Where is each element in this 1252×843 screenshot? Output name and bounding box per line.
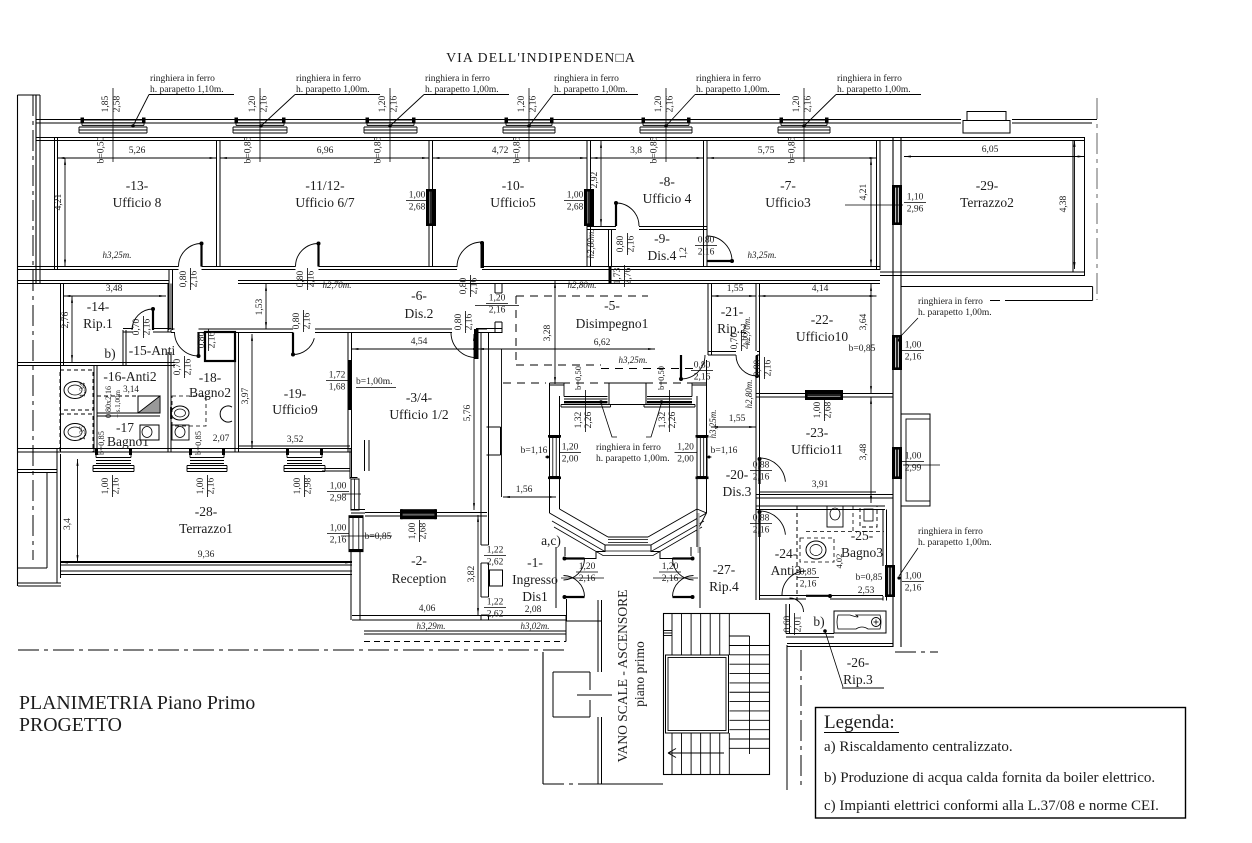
svg-text:3,48: 3,48 bbox=[106, 284, 123, 294]
svg-text:0,80: 0,80 bbox=[179, 270, 189, 287]
svg-text:b=0,85: b=0,85 bbox=[856, 573, 883, 583]
svg-text:1,20: 1,20 bbox=[792, 95, 802, 112]
svg-text:2,16: 2,16 bbox=[804, 95, 814, 112]
svg-text:0,88: 0,88 bbox=[753, 514, 770, 524]
svg-text:Ufficio11: Ufficio11 bbox=[791, 442, 843, 457]
svg-text:Ufficio9: Ufficio9 bbox=[272, 402, 318, 417]
svg-text:1,55: 1,55 bbox=[729, 414, 746, 424]
svg-text:1,32: 1,32 bbox=[658, 411, 668, 428]
svg-text:1,00: 1,00 bbox=[905, 452, 922, 462]
svg-text:2,26: 2,26 bbox=[668, 411, 678, 428]
svg-text:2,00: 2,00 bbox=[562, 455, 579, 465]
svg-text:0,80: 0,80 bbox=[753, 359, 763, 376]
svg-text:-26-: -26- bbox=[847, 655, 870, 670]
svg-text:2,76: 2,76 bbox=[623, 267, 633, 284]
svg-text:2,76: 2,76 bbox=[61, 311, 71, 328]
svg-text:6,05: 6,05 bbox=[982, 145, 999, 155]
svg-text:-19-: -19- bbox=[284, 386, 307, 401]
svg-text:0,80: 0,80 bbox=[292, 312, 302, 329]
svg-text:3,52: 3,52 bbox=[287, 435, 304, 445]
svg-text:Disimpegno1: Disimpegno1 bbox=[576, 316, 649, 331]
svg-text:4,72: 4,72 bbox=[492, 146, 509, 156]
svg-text:2,68: 2,68 bbox=[823, 401, 833, 418]
svg-text:-1-: -1- bbox=[527, 555, 543, 570]
svg-text:h3,25m.: h3,25m. bbox=[619, 355, 648, 365]
svg-text:VIA DELL'INDIPENDEN□A: VIA DELL'INDIPENDEN□A bbox=[446, 50, 636, 65]
svg-text:2,16: 2,16 bbox=[489, 306, 506, 316]
svg-text:h2,70m.: h2,70m. bbox=[323, 280, 352, 290]
svg-text:h. parapetto 1,00m.: h. parapetto 1,00m. bbox=[918, 538, 992, 548]
svg-text:h. parapetto 1,00m.: h. parapetto 1,00m. bbox=[837, 85, 911, 95]
svg-text:-25-: -25- bbox=[851, 528, 874, 543]
svg-text:a,c): a,c) bbox=[541, 533, 561, 548]
svg-text:h. parapetto 1,00m.: h. parapetto 1,00m. bbox=[296, 85, 370, 95]
svg-text:-11/12-: -11/12- bbox=[305, 178, 345, 193]
svg-text:2,16: 2,16 bbox=[905, 353, 922, 363]
svg-text:0,60: 0,60 bbox=[783, 615, 793, 632]
svg-text:2,92: 2,92 bbox=[590, 171, 600, 188]
svg-text:h3,29m.: h3,29m. bbox=[417, 621, 446, 631]
svg-text:1,00: 1,00 bbox=[813, 401, 823, 418]
svg-text:-18-: -18- bbox=[199, 370, 222, 385]
svg-text:2,16: 2,16 bbox=[206, 477, 216, 494]
svg-text:5,26: 5,26 bbox=[129, 146, 146, 156]
svg-text:2,16: 2,16 bbox=[698, 248, 715, 258]
svg-text:2,16: 2,16 bbox=[579, 574, 596, 584]
svg-text:1,00: 1,00 bbox=[905, 341, 922, 351]
svg-text:h2,70m.: h2,70m. bbox=[742, 317, 752, 346]
svg-text:2,16: 2,16 bbox=[529, 95, 539, 112]
svg-text:2,16: 2,16 bbox=[111, 477, 121, 494]
svg-text:1,73: 1,73 bbox=[613, 267, 623, 284]
svg-text:0,80: 0,80 bbox=[197, 331, 207, 348]
svg-text:2,62: 2,62 bbox=[487, 610, 504, 620]
svg-text:b=0,85: b=0,85 bbox=[244, 136, 254, 163]
svg-text:1,2: 1,2 bbox=[679, 247, 689, 259]
svg-text:-29-: -29- bbox=[976, 178, 999, 193]
svg-text:1,20: 1,20 bbox=[248, 95, 258, 112]
svg-text:ringhiera in ferro: ringhiera in ferro bbox=[554, 73, 619, 84]
svg-text:b) Produzione di acqua calda: b) Produzione di acqua calda fornita da … bbox=[824, 770, 1155, 786]
svg-text:4,38: 4,38 bbox=[1059, 195, 1069, 212]
svg-text:9,36: 9,36 bbox=[198, 550, 215, 560]
svg-text:1,00: 1,00 bbox=[330, 524, 347, 534]
svg-text:2,62: 2,62 bbox=[487, 558, 504, 568]
svg-text:b=0,85: b=0,85 bbox=[849, 344, 876, 354]
svg-text:ringhiera in ferro: ringhiera in ferro bbox=[837, 73, 902, 84]
svg-text:2,16: 2,16 bbox=[260, 95, 270, 112]
svg-text:1,00: 1,00 bbox=[101, 477, 111, 494]
svg-text:0,70: 0,70 bbox=[173, 358, 183, 375]
svg-text:2,53: 2,53 bbox=[858, 586, 875, 596]
svg-text:3,4: 3,4 bbox=[63, 518, 73, 530]
svg-text:0,80: 0,80 bbox=[694, 361, 711, 371]
svg-text:2,16: 2,16 bbox=[390, 95, 400, 112]
svg-text:0,80: 0,80 bbox=[459, 277, 469, 294]
svg-text:h3,25m.: h3,25m. bbox=[708, 410, 718, 439]
svg-text:ringhiera in ferro: ringhiera in ferro bbox=[150, 73, 215, 84]
svg-text:2,16: 2,16 bbox=[464, 313, 474, 330]
svg-text:2,16: 2,16 bbox=[142, 318, 152, 335]
svg-text:h3,25m.: h3,25m. bbox=[748, 250, 777, 260]
svg-text:3,48: 3,48 bbox=[859, 443, 869, 460]
svg-text:Rip.3: Rip.3 bbox=[843, 672, 873, 687]
svg-text:1,72: 1,72 bbox=[329, 371, 346, 381]
svg-text:2,68: 2,68 bbox=[418, 522, 428, 539]
svg-text:VANO SCALE - ASCENSORE: VANO SCALE - ASCENSORE bbox=[615, 590, 630, 763]
svg-text:b=0,85: b=0,85 bbox=[650, 136, 660, 163]
svg-text:2,16: 2,16 bbox=[753, 526, 770, 536]
svg-text:3,28: 3,28 bbox=[543, 324, 553, 341]
svg-text:h. parapetto 1,00m.: h. parapetto 1,00m. bbox=[554, 85, 628, 95]
svg-text:b=0,50: b=0,50 bbox=[573, 366, 583, 390]
svg-text:1,00: 1,00 bbox=[408, 522, 418, 539]
svg-text:0,80: 0,80 bbox=[296, 270, 306, 287]
svg-text:b=1,16: b=1,16 bbox=[711, 446, 738, 456]
svg-text:1,00: 1,00 bbox=[409, 191, 426, 201]
svg-text:b): b) bbox=[104, 346, 115, 361]
svg-text:1,20: 1,20 bbox=[579, 562, 596, 572]
svg-text:2,16: 2,16 bbox=[753, 473, 770, 483]
svg-text:1,68: 1,68 bbox=[329, 383, 346, 393]
svg-text:Reception: Reception bbox=[392, 571, 447, 586]
svg-text:3,82: 3,82 bbox=[467, 565, 477, 582]
svg-text:2,16: 2,16 bbox=[763, 359, 773, 376]
svg-text:Rip.1: Rip.1 bbox=[83, 316, 113, 331]
svg-text:2,16: 2,16 bbox=[306, 270, 316, 287]
svg-text:+ s.1,00m: + s.1,00m bbox=[114, 390, 122, 418]
svg-text:0,70: 0,70 bbox=[132, 318, 142, 335]
svg-text:h. parapetto 1,00m.: h. parapetto 1,00m. bbox=[425, 85, 499, 95]
svg-text:1,55: 1,55 bbox=[727, 284, 744, 294]
svg-text:ringhiera in ferro: ringhiera in ferro bbox=[918, 296, 983, 307]
svg-text:Dis.4: Dis.4 bbox=[648, 248, 677, 263]
svg-text:h2,80m.: h2,80m. bbox=[568, 280, 597, 290]
svg-text:2,01: 2,01 bbox=[793, 615, 803, 632]
svg-text:h. parapetto 1,00m.: h. parapetto 1,00m. bbox=[918, 308, 992, 318]
svg-text:0,70: 0,70 bbox=[730, 332, 740, 349]
svg-text:0,80: 0,80 bbox=[698, 236, 715, 246]
svg-text:0,88: 0,88 bbox=[753, 461, 770, 471]
svg-text:-13-: -13- bbox=[126, 178, 149, 193]
svg-text:4,21: 4,21 bbox=[859, 183, 869, 200]
svg-text:2,16: 2,16 bbox=[469, 277, 479, 294]
svg-text:2,16: 2,16 bbox=[302, 312, 312, 329]
svg-text:-24-: -24- bbox=[775, 546, 798, 561]
svg-text:Ufficio3: Ufficio3 bbox=[765, 195, 811, 210]
svg-text:Bagno3: Bagno3 bbox=[841, 545, 883, 560]
svg-text:1,20: 1,20 bbox=[489, 294, 506, 304]
svg-text:1,85: 1,85 bbox=[101, 95, 111, 112]
svg-text:3,91: 3,91 bbox=[812, 480, 829, 490]
svg-text:1,00: 1,00 bbox=[293, 477, 303, 494]
svg-text:b=0,85: b=0,85 bbox=[365, 532, 392, 542]
svg-text:b=0,85: b=0,85 bbox=[193, 431, 203, 455]
svg-text:ringhiera in ferro: ringhiera in ferro bbox=[596, 442, 661, 453]
svg-text:1,56: 1,56 bbox=[516, 485, 533, 495]
svg-text:2,16: 2,16 bbox=[330, 536, 347, 546]
svg-text:-17: -17 bbox=[116, 420, 134, 435]
svg-text:-16-Anti2: -16-Anti2 bbox=[103, 369, 156, 384]
svg-text:Ufficio 6/7: Ufficio 6/7 bbox=[295, 195, 355, 210]
svg-text:2,58: 2,58 bbox=[113, 95, 123, 112]
svg-text:-20-: -20- bbox=[726, 467, 749, 482]
svg-text:b=1,00m.: b=1,00m. bbox=[356, 377, 393, 387]
svg-text:b=0,85: b=0,85 bbox=[788, 136, 798, 163]
svg-text:Terrazzo1: Terrazzo1 bbox=[179, 521, 233, 536]
svg-text:1,20: 1,20 bbox=[562, 443, 579, 453]
svg-text:b): b) bbox=[813, 614, 824, 629]
svg-text:1,34: 1,34 bbox=[77, 382, 87, 398]
svg-text:0,85: 0,85 bbox=[800, 568, 817, 578]
svg-text:3,14: 3,14 bbox=[123, 384, 139, 394]
svg-text:6,62: 6,62 bbox=[594, 338, 611, 348]
svg-text:1,00: 1,00 bbox=[905, 572, 922, 582]
svg-text:-15-Anti: -15-Anti bbox=[129, 343, 176, 358]
svg-text:1,10: 1,10 bbox=[907, 193, 924, 203]
svg-text:5,75: 5,75 bbox=[758, 146, 775, 156]
svg-text:4,14: 4,14 bbox=[812, 284, 829, 294]
svg-text:1,00: 1,00 bbox=[330, 482, 347, 492]
svg-text:-8-: -8- bbox=[659, 174, 675, 189]
svg-text:-14-: -14- bbox=[87, 299, 110, 314]
svg-text:2,00: 2,00 bbox=[677, 455, 694, 465]
svg-text:4,06: 4,06 bbox=[419, 604, 436, 614]
svg-text:2,96: 2,96 bbox=[907, 205, 924, 215]
svg-text:2,16: 2,16 bbox=[183, 358, 193, 375]
svg-text:-21-: -21- bbox=[721, 304, 744, 319]
svg-text:1,00: 1,00 bbox=[567, 191, 584, 201]
svg-text:1,20: 1,20 bbox=[654, 95, 664, 112]
svg-text:2,16: 2,16 bbox=[800, 580, 817, 590]
svg-text:h2,80m.: h2,80m. bbox=[586, 230, 596, 259]
svg-text:ringhiera in ferro: ringhiera in ferro bbox=[425, 73, 490, 84]
svg-text:Dis.3: Dis.3 bbox=[723, 484, 752, 499]
svg-text:1,20: 1,20 bbox=[378, 95, 388, 112]
svg-text:a) Riscaldamento centralizzat: a) Riscaldamento centralizzato. bbox=[824, 739, 1013, 755]
svg-text:h3,02m.: h3,02m. bbox=[521, 621, 550, 631]
svg-text:2,16: 2,16 bbox=[189, 270, 199, 287]
svg-text:2,07: 2,07 bbox=[213, 434, 230, 444]
svg-text:-3/4-: -3/4- bbox=[406, 390, 433, 405]
svg-text:1,00: 1,00 bbox=[196, 477, 206, 494]
svg-text:Terrazzo2: Terrazzo2 bbox=[960, 195, 1014, 210]
svg-text:PLANIMETRIA Piano Primo: PLANIMETRIA Piano Primo bbox=[19, 692, 255, 714]
svg-text:2,98: 2,98 bbox=[303, 477, 313, 494]
svg-text:1,20: 1,20 bbox=[677, 443, 694, 453]
svg-text:c) Impianti elettrici conformi: c) Impianti elettrici conformi alla L.37… bbox=[824, 798, 1159, 814]
svg-text:2,16: 2,16 bbox=[662, 574, 679, 584]
svg-text:ringhiera in ferro: ringhiera in ferro bbox=[696, 73, 761, 84]
svg-text:2,26: 2,26 bbox=[584, 411, 594, 428]
svg-text:1,22: 1,22 bbox=[487, 598, 504, 608]
svg-text:-2-: -2- bbox=[411, 553, 427, 568]
svg-text:h3,25m.: h3,25m. bbox=[103, 250, 132, 260]
svg-text:h. parapetto 1,00m.: h. parapetto 1,00m. bbox=[596, 454, 670, 464]
svg-text:-23-: -23- bbox=[806, 425, 829, 440]
svg-text:1,20: 1,20 bbox=[662, 562, 679, 572]
svg-text:5,76: 5,76 bbox=[463, 404, 473, 421]
svg-text:1,22: 1,22 bbox=[487, 546, 504, 556]
svg-text:6,96: 6,96 bbox=[317, 146, 334, 156]
svg-text:4,21: 4,21 bbox=[54, 193, 64, 210]
svg-text:-5-: -5- bbox=[604, 298, 620, 313]
svg-text:-6-: -6- bbox=[411, 288, 427, 303]
svg-text:0,80: 0,80 bbox=[616, 235, 626, 252]
svg-text:b=0,85: b=0,85 bbox=[374, 136, 384, 163]
svg-text:Anti3: Anti3 bbox=[771, 563, 802, 578]
svg-text:1,20: 1,20 bbox=[517, 95, 527, 112]
svg-text:b=0,50: b=0,50 bbox=[656, 366, 666, 390]
svg-text:b=1,16: b=1,16 bbox=[521, 446, 548, 456]
svg-text:Rip.4: Rip.4 bbox=[709, 579, 739, 594]
svg-text:Dis1: Dis1 bbox=[522, 589, 548, 604]
svg-text:2,16: 2,16 bbox=[694, 373, 711, 383]
svg-text:1,32: 1,32 bbox=[574, 411, 584, 428]
svg-text:Dis.2: Dis.2 bbox=[405, 306, 434, 321]
svg-text:Bagno2: Bagno2 bbox=[189, 385, 231, 400]
svg-text:-28-: -28- bbox=[195, 504, 218, 519]
svg-text:2,98: 2,98 bbox=[330, 494, 347, 504]
svg-text:Ufficio10: Ufficio10 bbox=[796, 329, 848, 344]
svg-text:2,16: 2,16 bbox=[666, 95, 676, 112]
svg-text:PROGETTO: PROGETTO bbox=[19, 714, 122, 736]
svg-text:2,16: 2,16 bbox=[207, 331, 217, 348]
svg-text:Ufficio 1/2: Ufficio 1/2 bbox=[389, 407, 448, 422]
svg-text:2,16: 2,16 bbox=[905, 584, 922, 594]
svg-text:1,35: 1,35 bbox=[77, 426, 87, 441]
svg-text:4,02: 4,02 bbox=[834, 554, 844, 569]
svg-text:ringhiera in ferro: ringhiera in ferro bbox=[296, 73, 361, 84]
svg-text:3,97: 3,97 bbox=[241, 387, 251, 404]
svg-text:2,68: 2,68 bbox=[567, 203, 584, 213]
svg-text:2,08: 2,08 bbox=[525, 605, 542, 615]
svg-text:0,80: 0,80 bbox=[454, 313, 464, 330]
svg-text:h. parapetto 1,00m.: h. parapetto 1,00m. bbox=[696, 85, 770, 95]
svg-text:Ufficio5: Ufficio5 bbox=[490, 195, 536, 210]
svg-text:h. parapetto 1,10m.: h. parapetto 1,10m. bbox=[150, 85, 224, 95]
svg-text:h2,80m.: h2,80m. bbox=[744, 380, 754, 409]
svg-text:-22-: -22- bbox=[811, 312, 834, 327]
svg-text:-10-: -10- bbox=[502, 178, 525, 193]
svg-text:2,16: 2,16 bbox=[626, 235, 636, 252]
svg-text:piano primo: piano primo bbox=[632, 641, 647, 707]
svg-text:-7-: -7- bbox=[780, 178, 796, 193]
svg-text:Ufficio 8: Ufficio 8 bbox=[113, 195, 162, 210]
svg-text:ringhiera in ferro: ringhiera in ferro bbox=[918, 526, 983, 537]
svg-text:-27-: -27- bbox=[713, 562, 736, 577]
svg-text:Ingresso: Ingresso bbox=[512, 572, 558, 587]
svg-text:4,54: 4,54 bbox=[411, 337, 428, 347]
svg-text:-9-: -9- bbox=[654, 231, 670, 246]
svg-text:2,68: 2,68 bbox=[409, 203, 426, 213]
svg-text:b=0,85: b=0,85 bbox=[513, 136, 523, 163]
svg-text:3,64: 3,64 bbox=[859, 313, 869, 330]
svg-text:1,53: 1,53 bbox=[255, 298, 265, 315]
svg-text:b=0,50: b=0,50 bbox=[97, 136, 107, 163]
svg-text:Ufficio 4: Ufficio 4 bbox=[643, 191, 692, 206]
svg-text:3,8: 3,8 bbox=[630, 146, 642, 156]
svg-text:Legenda:: Legenda: bbox=[824, 712, 895, 733]
